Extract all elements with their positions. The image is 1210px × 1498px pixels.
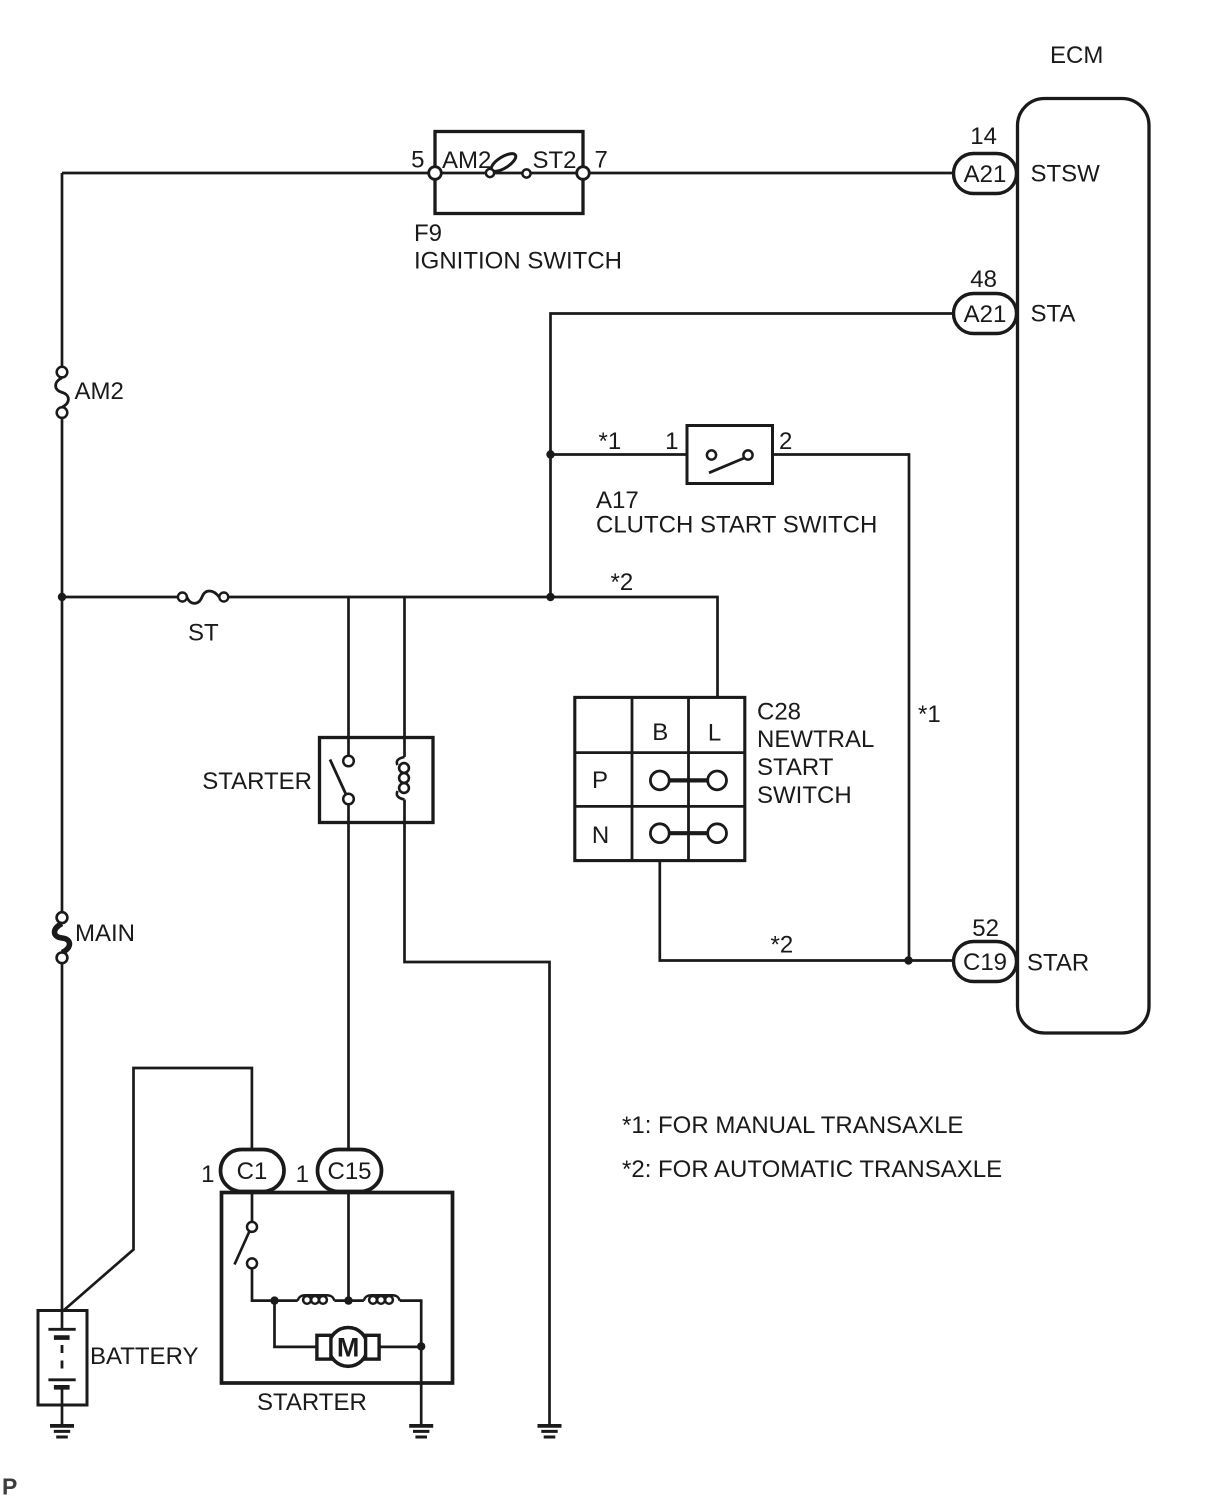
svg-text:SWITCH: SWITCH xyxy=(757,782,852,809)
wire starter C1 into internal switch xyxy=(251,1191,254,1222)
wire left vertical between MAIN fusible link and battery xyxy=(61,963,64,1311)
svg-text:AM2: AM2 xyxy=(442,147,491,174)
svg-text:STARTER: STARTER xyxy=(257,1389,367,1416)
svg-text:ST2: ST2 xyxy=(533,147,577,174)
svg-text:STAR: STAR xyxy=(1027,950,1089,977)
svg-text:C28: C28 xyxy=(757,699,801,726)
neutral switch P row contacts xyxy=(650,771,726,790)
ignition switch terminal pin 7 xyxy=(577,167,590,180)
node junction ST line at STA vertical xyxy=(546,593,554,601)
node junction clutch feed on STA vertical xyxy=(546,450,554,458)
fuse AM2 xyxy=(56,378,69,408)
wire relay switch output down to starter C15 xyxy=(347,804,350,1149)
wire starter motor node to ground xyxy=(420,1346,423,1424)
node junction STAR line at *1 vertical xyxy=(904,956,912,964)
neutral switch grid column line 1 xyxy=(631,697,634,860)
starter motor right brush xyxy=(366,1335,380,1359)
svg-text:5: 5 xyxy=(411,147,424,174)
battery box xyxy=(38,1311,87,1406)
svg-text:1: 1 xyxy=(201,1161,214,1188)
wire starter switch output down to field coil node xyxy=(252,1268,298,1300)
node junction motor right to ground xyxy=(417,1342,425,1350)
ignition switch F9 lever xyxy=(489,150,519,174)
svg-text:STA: STA xyxy=(1031,301,1076,328)
svg-text:CLUTCH START SWITCH: CLUTCH START SWITCH xyxy=(596,512,877,539)
starter relay coil xyxy=(397,757,409,800)
node junction ST line at left vertical xyxy=(58,593,66,601)
svg-text:M: M xyxy=(337,1333,360,1363)
svg-text:C1: C1 xyxy=(237,1158,268,1185)
neutral switch N row contact bar xyxy=(667,831,710,835)
wire field coil 2 to right corner down to motor node xyxy=(400,1301,422,1347)
clutch start switch contact 2 xyxy=(743,450,752,459)
wire motor left brush branch xyxy=(275,1301,317,1347)
starter internal switch contact top xyxy=(247,1222,257,1232)
wire ST line left segment to ST fuse xyxy=(62,596,178,599)
ignition switch F9 box xyxy=(435,132,583,214)
wire battery positive cable diagonal and up-over to starter C1 xyxy=(64,1068,252,1311)
starter internal switch contact bottom xyxy=(247,1258,257,1268)
ignition switch contact AM2 xyxy=(486,169,494,177)
starter relay switch lever xyxy=(330,760,347,796)
svg-text:*2: *2 xyxy=(611,569,634,596)
svg-text:B: B xyxy=(652,719,668,746)
svg-text:1: 1 xyxy=(665,428,678,455)
starter motor assembly box xyxy=(222,1193,453,1384)
wire neutral switch output down and right to ECM C19 STAR xyxy=(660,861,954,961)
ignition switch contact ST2 xyxy=(522,169,530,177)
svg-text:14: 14 xyxy=(970,123,997,150)
starter relay box xyxy=(320,738,434,823)
svg-text:*1: FOR MANUAL TRANSAXLE: *1: FOR MANUAL TRANSAXLE xyxy=(622,1112,963,1139)
svg-text:BATTERY: BATTERY xyxy=(90,1343,198,1370)
node junction starter switch to motor branch xyxy=(270,1296,278,1304)
svg-text:START: START xyxy=(757,754,834,781)
wire STA line from node down-corner to ECM A21 pin 48 xyxy=(551,314,954,598)
svg-text:*2: *2 xyxy=(771,932,794,959)
clutch start switch A17 box xyxy=(687,426,773,484)
svg-text:*1: *1 xyxy=(599,428,622,455)
svg-text:*1: *1 xyxy=(918,701,941,728)
wire top STSW line from left vertical to ignition switch and to ECM A21 pin 14 xyxy=(62,172,954,175)
wire relay switch feed from ST line xyxy=(347,597,350,756)
neutral switch N row contacts xyxy=(650,824,726,843)
svg-text:MAIN: MAIN xyxy=(75,920,135,947)
ground starter motor xyxy=(409,1426,433,1437)
svg-text:52: 52 xyxy=(972,915,999,942)
svg-text:ECM: ECM xyxy=(1050,42,1103,69)
connector oval C15 xyxy=(318,1150,382,1192)
wire ST line from fuse to *2 corner down to neutral start switch xyxy=(229,597,717,697)
wire starter C15 down to coil junction xyxy=(347,1191,350,1300)
svg-text:NEWTRAL: NEWTRAL xyxy=(757,726,874,753)
svg-text:48: 48 xyxy=(970,266,997,293)
clutch start switch lever xyxy=(709,458,746,473)
starter relay switch contact bottom xyxy=(343,794,354,805)
svg-text:7: 7 xyxy=(595,147,608,174)
starter relay switch contact top xyxy=(343,756,354,767)
wire battery negative to ground xyxy=(61,1405,64,1424)
wire relay coil to ground (down, right, down) xyxy=(405,800,550,1425)
clutch start switch contact 1 xyxy=(707,450,716,459)
neutral switch grid column line 2 xyxy=(687,697,690,860)
svg-text:STSW: STSW xyxy=(1031,161,1101,188)
starter field coil 2 xyxy=(364,1295,400,1304)
svg-text:A17: A17 xyxy=(596,487,639,514)
neutral start switch C28 box grid xyxy=(575,697,745,860)
ground battery xyxy=(50,1426,74,1437)
connector oval C19 pin 52 xyxy=(954,942,1017,982)
svg-text:L: L xyxy=(708,720,721,747)
svg-text:AM2: AM2 xyxy=(75,378,124,405)
svg-text:IGNITION SWITCH: IGNITION SWITCH xyxy=(414,248,622,275)
fuse ST xyxy=(187,591,219,603)
svg-text:STARTER: STARTER xyxy=(202,768,312,795)
wire clutch switch pin2 to right vertical *1 down to STAR line xyxy=(773,455,910,961)
wire relay coil feed from ST line xyxy=(403,597,406,757)
svg-text:A21: A21 xyxy=(964,301,1007,328)
ECM U1 body xyxy=(1018,99,1150,1034)
neutral switch grid row line 1 xyxy=(575,751,745,754)
ignition switch terminal pin 5 xyxy=(429,167,442,180)
svg-text:C19: C19 xyxy=(963,949,1007,976)
wire motor right brush to node xyxy=(379,1346,421,1349)
connector oval A21 pin 14 xyxy=(954,154,1017,194)
connector oval A21 pin 48 xyxy=(954,294,1017,334)
battery plates xyxy=(48,1311,75,1406)
ground relay coil return xyxy=(538,1426,562,1437)
svg-text:P: P xyxy=(2,1474,17,1498)
svg-text:1: 1 xyxy=(296,1161,309,1188)
neutral switch P row contact bar xyxy=(667,778,710,782)
node junction C15 to field coils xyxy=(344,1296,352,1304)
svg-text:P: P xyxy=(592,767,608,794)
wire between field coil 1 and junction xyxy=(334,1299,363,1302)
starter field coil 1 xyxy=(298,1295,335,1304)
neutral switch grid row line 2 xyxy=(575,805,745,808)
wire clutch switch pin1 feed xyxy=(551,453,688,456)
svg-text:*2: FOR AUTOMATIC TRANSAXLE: *2: FOR AUTOMATIC TRANSAXLE xyxy=(622,1156,1002,1183)
svg-text:2: 2 xyxy=(779,428,792,455)
svg-text:F9: F9 xyxy=(414,220,442,247)
fusible link MAIN xyxy=(55,924,70,953)
starter motor left brush xyxy=(317,1335,331,1359)
svg-text:N: N xyxy=(592,822,609,849)
svg-text:ST: ST xyxy=(188,620,219,647)
svg-text:A21: A21 xyxy=(964,161,1007,188)
starter internal switch lever xyxy=(235,1231,250,1265)
svg-text:C15: C15 xyxy=(327,1158,371,1185)
wire left vertical between AM2 fuse and ST node xyxy=(61,418,64,597)
wire left vertical battery feed upper (top corner to AM2 fuse) xyxy=(61,173,64,367)
wire left vertical between ST node and MAIN fusible link xyxy=(61,597,64,912)
starter motor M circle xyxy=(329,1328,368,1367)
connector oval C1 xyxy=(221,1150,285,1192)
